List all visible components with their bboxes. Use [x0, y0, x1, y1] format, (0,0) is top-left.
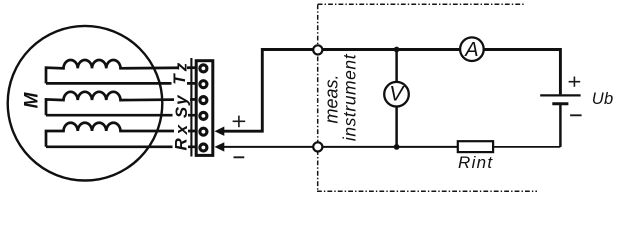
winding 3 (bottom): coil wire to terminal x [46, 123, 199, 147]
probe arrow - into terminal R [215, 142, 225, 151]
terminal 4 (S) [200, 112, 207, 119]
wire: voltmeter branch [395, 50, 398, 147]
dashed enclosure: measuring instrument boundary, left edge [317, 5, 319, 192]
minus sign at probe [234, 156, 245, 158]
dashed enclosure top edge [318, 3, 524, 5]
winding 3 return wire to terminal R [46, 145, 199, 148]
svg-text:R: R [172, 137, 191, 150]
dashed enclosure bottom edge [317, 190, 537, 192]
terminal 1 (z) [200, 65, 207, 72]
battery Ub long plate (+) [540, 94, 580, 96]
wire: bottom rail from resistor to battery [493, 146, 560, 148]
wire: - lead bottom rail from arrow to resistor [224, 146, 459, 148]
terminal 5 (x) [200, 128, 207, 135]
node: junction dot bottom [394, 144, 400, 150]
probe arrow + into terminal x [215, 127, 225, 136]
winding 1 (top): coil wire to terminal z [46, 60, 199, 83]
svg-text:x: x [172, 123, 191, 135]
resistor Rint [458, 141, 493, 152]
svg-text:instrument: instrument [339, 53, 359, 141]
voltmeter U1 [384, 82, 409, 107]
plus sign at probe [233, 116, 246, 128]
svg-text:meas.: meas. [321, 74, 341, 123]
winding 2 (middle): coil wire to terminal y [46, 92, 199, 115]
terminal block body [196, 61, 213, 156]
svg-text:Ub: Ub [592, 90, 614, 108]
node: boundary terminal top (open circle) [313, 45, 322, 54]
terminal 2 (T) [200, 81, 207, 88]
battery minus sign [570, 114, 582, 116]
wire: + lead from arrow, riser, top rail to battery [224, 50, 561, 132]
svg-text:V: V [389, 83, 405, 106]
battery plus sign [569, 77, 581, 87]
label background gaps on wires [172, 61, 191, 152]
svg-text:Rint: Rint [458, 153, 493, 172]
ammeter U2 [460, 37, 484, 61]
svg-text:S: S [172, 106, 191, 118]
node: boundary terminal bottom (open circle) [313, 142, 322, 151]
battery Ub short plate (-) [552, 102, 568, 105]
terminal 6 (R) [200, 144, 207, 151]
node: junction dot top [394, 47, 400, 53]
motor circle M [8, 26, 163, 181]
terminal block inner left rail [190, 58, 192, 157]
winding 1 return wire to terminal T [46, 82, 199, 85]
svg-text:M: M [22, 91, 43, 108]
svg-text:y: y [172, 94, 191, 106]
svg-text:T: T [170, 73, 189, 85]
wire: battery minus to bottom rail [559, 104, 562, 147]
svg-text:z: z [172, 62, 191, 72]
terminal 3 (y) [200, 97, 207, 104]
svg-text:A: A [464, 39, 478, 61]
winding 2 return wire to terminal S [46, 114, 199, 117]
